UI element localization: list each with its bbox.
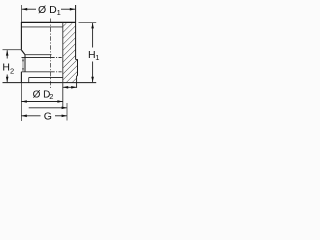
centerline (50, 19, 52, 89)
left waist edge (24, 55, 26, 72)
dim D1: left extension merged with edge, line and arrows (20, 5, 22, 22)
bottom recess corner (28, 78, 30, 83)
svg-text:1: 1 (95, 53, 99, 62)
dim H2: extensions, arrows, label (3, 49, 22, 51)
right outer edge (75, 5, 77, 60)
auxiliary extension (66, 103, 68, 121)
part top second line (21, 26, 62, 28)
dim H1: extensions, arrows, label (79, 22, 97, 24)
right flange step (76, 59, 78, 61)
svg-text:Ø D: Ø D (38, 4, 57, 16)
left outer edge (20, 22, 22, 50)
cavity floor hidden continuation (52, 57, 63, 59)
inner bore wall (62, 23, 64, 109)
auxiliary dim line (29, 107, 67, 109)
svg-text:1: 1 (57, 8, 61, 17)
svg-text:G: G (44, 110, 52, 122)
svg-text:H: H (2, 61, 10, 73)
bottom recess line (29, 77, 63, 79)
groove small dim arrows (22, 58, 24, 71)
bottom face with extension lines (3, 82, 97, 84)
svg-text:Ø D: Ø D (33, 89, 51, 100)
left chamfer (21, 50, 25, 55)
groove step line (21, 71, 51, 73)
left flange edge (20, 72, 22, 83)
right flange jog (76, 75, 79, 77)
cavity floor line lower (22, 57, 52, 59)
hatched section wall (63, 23, 78, 82)
dim D2: line, arrows, label (20, 83, 22, 121)
right flange edge (77, 59, 79, 76)
part top face (21, 21, 75, 23)
groove step hidden continuation (52, 71, 63, 73)
svg-text:2: 2 (10, 66, 14, 75)
cavity floor line upper (25, 54, 52, 56)
dim wall thickness under flange (63, 86, 77, 88)
svg-text:2: 2 (49, 92, 53, 101)
right lower edge + extension (76, 76, 78, 88)
dim G: line, arrows, label (21, 115, 40, 117)
